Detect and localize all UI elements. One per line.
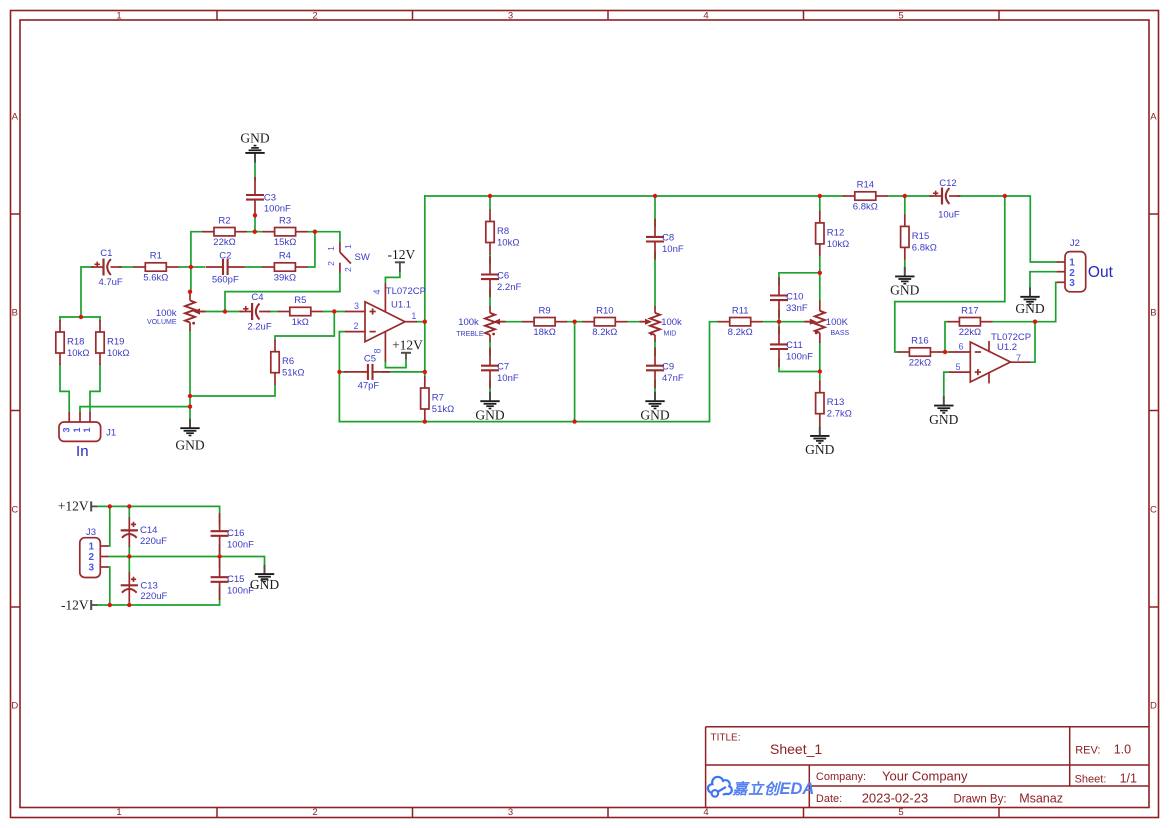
wire wiper to C4	[197, 311, 242, 313]
junction	[1003, 194, 1007, 198]
wire bus to R8	[489, 196, 491, 210]
power -12V	[61, 597, 97, 612]
wire C14 bottom	[128, 547, 130, 557]
resistor R12	[816, 211, 850, 256]
svg-text:GND: GND	[929, 412, 958, 427]
wire R19 top stub	[99, 317, 101, 320]
wire R4 to C2	[246, 266, 263, 268]
capacitor C7	[481, 348, 499, 389]
svg-text:R11: R11	[732, 305, 749, 316]
wire C10 to R12 node	[779, 273, 820, 285]
svg-text:C14: C14	[140, 525, 157, 536]
junction	[108, 603, 112, 607]
capacitor C3	[246, 177, 264, 218]
capacitor C4	[239, 303, 270, 320]
junction	[253, 230, 257, 234]
svg-text:C1: C1	[100, 248, 112, 259]
svg-text:C4: C4	[251, 292, 263, 303]
junction	[217, 554, 221, 558]
svg-text:GND: GND	[1015, 301, 1044, 316]
svg-text:15kΩ: 15kΩ	[274, 237, 296, 248]
svg-text:Msanaz: Msanaz	[1019, 791, 1063, 805]
svg-text:1: 1	[88, 542, 94, 553]
svg-text:D: D	[1150, 701, 1157, 712]
junction	[188, 290, 192, 294]
svg-text:1: 1	[411, 311, 416, 321]
capacitor C13	[121, 572, 138, 602]
wire C4 to R5	[268, 311, 278, 313]
svg-text:2.7kΩ: 2.7kΩ	[827, 409, 852, 420]
wire bass bottom	[819, 343, 821, 372]
resistor R19	[96, 320, 130, 365]
svg-text:-12V: -12V	[61, 597, 89, 612]
junction	[1033, 320, 1037, 324]
svg-text:C2: C2	[219, 250, 231, 261]
svg-text:SW: SW	[355, 252, 370, 263]
svg-text:1: 1	[343, 244, 353, 249]
svg-text:8: 8	[373, 348, 383, 353]
svg-text:2: 2	[88, 552, 94, 563]
svg-text:47pF: 47pF	[358, 380, 380, 391]
svg-text:Sheet:: Sheet:	[1075, 773, 1107, 785]
wire R17 to out node	[992, 321, 1035, 323]
junction	[423, 320, 427, 324]
resistor R2	[202, 215, 247, 248]
svg-text:51kΩ: 51kΩ	[432, 404, 454, 415]
resistor R7	[421, 376, 455, 421]
resistor R15	[901, 214, 937, 259]
svg-text:Out: Out	[1088, 264, 1114, 281]
wire C15 top	[219, 557, 221, 568]
svg-text:2.2nF: 2.2nF	[497, 282, 521, 293]
wire bus R14 to C12	[888, 195, 932, 197]
resistor R8	[486, 210, 520, 255]
svg-text:3: 3	[508, 807, 513, 818]
svg-text:C3: C3	[264, 193, 276, 204]
svg-text:4: 4	[703, 807, 708, 818]
power +12V	[58, 499, 97, 514]
wire R7 bottom	[424, 420, 426, 423]
wire J1 pin1 to gnd bus	[80, 407, 190, 412]
wire bass node to C10	[778, 311, 780, 322]
junction	[903, 194, 907, 198]
ground	[250, 565, 279, 592]
junction	[332, 309, 336, 313]
svg-text:5.6kΩ: 5.6kΩ	[143, 272, 168, 283]
junction	[253, 213, 257, 217]
capacitor C14	[121, 517, 138, 547]
resistor R1	[133, 251, 178, 284]
wire R13 to gnd	[819, 425, 821, 428]
wire R1 to node	[178, 266, 191, 268]
wire bottom bus	[339, 322, 717, 422]
svg-text:C16: C16	[227, 528, 244, 539]
wire R18 to R19 top	[60, 316, 100, 318]
capacitor C6	[481, 256, 499, 297]
svg-text:10nF: 10nF	[662, 244, 684, 255]
svg-text:C15: C15	[227, 574, 244, 585]
wire node to R17	[945, 322, 947, 352]
resistor R10	[582, 305, 627, 338]
wire C12 to J2 pin1	[958, 196, 1057, 262]
wire R11 to bass node	[763, 321, 813, 323]
svg-text:3: 3	[61, 427, 71, 432]
svg-text:R14: R14	[857, 180, 874, 191]
wire bus to R12	[819, 196, 821, 211]
svg-text:220uF: 220uF	[140, 536, 167, 547]
ground	[1015, 287, 1044, 315]
junction	[189, 265, 193, 269]
svg-text:100k: 100k	[458, 317, 479, 328]
svg-text:BASS: BASS	[831, 330, 850, 337]
junction	[127, 504, 131, 508]
junction	[572, 419, 576, 423]
svg-text:7: 7	[1016, 353, 1021, 363]
ground	[929, 396, 958, 427]
pot pin dot	[192, 322, 195, 325]
svg-text:2023-02-23: 2023-02-23	[862, 791, 929, 806]
resistor R11	[718, 305, 763, 338]
svg-text:10kΩ: 10kΩ	[827, 239, 849, 250]
capacitor C2	[206, 259, 245, 275]
svg-text:22kΩ: 22kΩ	[213, 237, 235, 248]
ground	[640, 392, 669, 423]
svg-text:6.8kΩ: 6.8kΩ	[912, 242, 937, 253]
svg-text:TITLE:: TITLE:	[711, 732, 741, 743]
junction	[79, 315, 83, 319]
ground	[175, 419, 204, 453]
svg-text:C11: C11	[786, 340, 803, 351]
wire GND1 to C3	[254, 162, 256, 181]
svg-text:R12: R12	[827, 227, 844, 238]
wire volume gnd column	[189, 331, 191, 428]
resistor R6	[271, 340, 305, 385]
svg-text:100k: 100k	[156, 308, 177, 319]
wire bass top	[819, 273, 821, 301]
ground	[805, 427, 834, 458]
wire bass node to C11	[778, 322, 780, 334]
wire top bus	[425, 195, 843, 197]
resistor R9	[522, 305, 567, 338]
svg-text:R4: R4	[279, 251, 291, 262]
svg-text:嘉立创: 嘉立创	[732, 780, 783, 798]
svg-text:2: 2	[353, 321, 358, 331]
svg-text:2: 2	[326, 261, 336, 266]
svg-text:4.7uF: 4.7uF	[98, 277, 122, 288]
wire pin2 feedback column	[339, 332, 345, 422]
junction	[313, 230, 317, 234]
svg-text:TL072CP: TL072CP	[386, 286, 426, 297]
capacitor C1	[91, 259, 122, 276]
connector J3	[80, 538, 109, 578]
svg-text:3: 3	[88, 563, 94, 574]
wire R5 to pin3 node	[323, 311, 345, 313]
svg-text:8.2kΩ: 8.2kΩ	[728, 327, 753, 338]
svg-text:3: 3	[508, 11, 513, 22]
wire bus to C8	[654, 196, 656, 226]
wire node to R13	[819, 372, 821, 381]
svg-text:C: C	[1150, 505, 1157, 516]
svg-text:22kΩ: 22kΩ	[909, 357, 931, 368]
pot pin dot	[815, 332, 818, 335]
wire R10 to mid wiper	[627, 321, 646, 323]
wire J2 node to R16	[895, 196, 1005, 352]
svg-text:1/1: 1/1	[1120, 771, 1137, 785]
svg-text:R5: R5	[294, 295, 306, 306]
wiper arrow	[193, 308, 206, 314]
svg-text:C9: C9	[662, 362, 674, 373]
svg-text:2: 2	[312, 11, 317, 22]
svg-text:6.8kΩ: 6.8kΩ	[853, 201, 878, 212]
connector J1	[59, 412, 101, 441]
svg-text:R8: R8	[497, 226, 509, 237]
svg-text:GND: GND	[240, 131, 269, 146]
svg-text:2: 2	[343, 267, 353, 272]
svg-text:2: 2	[312, 807, 317, 818]
svg-text:GND: GND	[175, 438, 204, 453]
svg-text:R6: R6	[282, 356, 294, 367]
svg-text:3: 3	[354, 301, 359, 311]
svg-text:C5: C5	[364, 354, 376, 365]
resistor R13	[816, 381, 852, 426]
EDA logo	[708, 777, 814, 798]
svg-text:R17: R17	[961, 305, 978, 316]
wire left rail	[424, 196, 426, 376]
svg-text:100k: 100k	[661, 317, 682, 328]
wire out node to J2 pin3	[1035, 282, 1057, 321]
wire +12V to pin8	[385, 359, 406, 368]
junction	[653, 194, 657, 198]
resistor R3	[263, 215, 308, 248]
wire R3 to SW node	[308, 231, 315, 233]
svg-text:Date:: Date:	[816, 793, 842, 805]
svg-text:22kΩ: 22kΩ	[959, 327, 981, 338]
svg-text:U1.1: U1.1	[391, 300, 411, 311]
svg-text:R18: R18	[67, 337, 84, 348]
wire -12V rail	[97, 588, 219, 605]
power +12V	[392, 337, 423, 359]
resistor R18	[56, 320, 90, 365]
junction	[572, 320, 576, 324]
svg-text:10kΩ: 10kΩ	[497, 238, 519, 249]
pot pin dot	[650, 333, 653, 336]
wire +12V rail	[97, 506, 219, 524]
junction	[127, 554, 131, 558]
svg-text:100nF: 100nF	[264, 204, 291, 215]
wire J2 pin2 to gnd	[1030, 272, 1057, 288]
junction	[818, 271, 822, 275]
wiper arrow	[804, 319, 817, 325]
svg-text:TL072CP: TL072CP	[991, 332, 1031, 343]
svg-text:R10: R10	[596, 305, 613, 316]
svg-text:47nF: 47nF	[662, 373, 684, 384]
svg-text:5: 5	[898, 11, 903, 22]
svg-text:4: 4	[703, 11, 708, 22]
wire pin1 out	[417, 321, 425, 323]
ground	[475, 392, 504, 423]
svg-text:Company:: Company:	[816, 771, 866, 783]
wire R16 to pin6	[942, 351, 949, 353]
svg-text:Drawn By:: Drawn By:	[954, 793, 1007, 805]
svg-text:REV:: REV:	[1075, 744, 1100, 756]
svg-text:1.0: 1.0	[1114, 742, 1131, 756]
svg-text:2.2uF: 2.2uF	[247, 322, 271, 333]
svg-text:1kΩ: 1kΩ	[292, 317, 309, 328]
svg-text:R16: R16	[911, 336, 928, 347]
wire C13 bottom	[128, 602, 130, 605]
wire R12 to bass	[819, 256, 821, 273]
junction	[188, 404, 192, 408]
capacitor C15	[211, 559, 229, 600]
wire R18 to J1 pin3	[60, 365, 69, 412]
wire C11 to R13 node	[779, 360, 820, 372]
wire C9 to gnd	[654, 381, 656, 392]
svg-text:C10: C10	[786, 291, 803, 302]
svg-text:39kΩ: 39kΩ	[274, 272, 296, 283]
wire treble wiper to R9	[498, 321, 523, 323]
wire R15 to gnd	[904, 259, 906, 267]
svg-text:220uF: 220uF	[140, 591, 167, 602]
svg-text:R9: R9	[539, 305, 551, 316]
svg-text:C6: C6	[497, 270, 509, 281]
svg-text:18kΩ: 18kΩ	[533, 327, 555, 338]
capacitor C8	[646, 219, 664, 260]
wire node to R6 top	[275, 312, 334, 340]
svg-text:C7: C7	[497, 362, 509, 373]
wire C8 to mid	[654, 252, 656, 306]
capacitor C9	[646, 348, 664, 389]
wire gnd bus to R6	[190, 385, 275, 396]
resistor R5	[278, 295, 323, 328]
svg-text:J3: J3	[86, 527, 96, 538]
svg-text:51kΩ: 51kΩ	[282, 368, 304, 379]
wire node to SW pin1	[315, 232, 340, 243]
svg-text:R15: R15	[912, 231, 929, 242]
junction	[108, 504, 112, 508]
wire C7 to gnd	[489, 381, 491, 392]
wire C13 top	[128, 557, 130, 573]
junction	[818, 369, 822, 373]
title block	[706, 727, 1149, 808]
wire R2 left to R1 node	[191, 232, 202, 292]
switch SW	[340, 243, 351, 273]
capacitor C16	[211, 513, 229, 554]
capacitor C12	[929, 188, 960, 205]
ground	[890, 267, 919, 298]
svg-text:EDA: EDA	[780, 780, 815, 798]
wire R19 to J1 pin2	[90, 365, 100, 412]
svg-text:1: 1	[326, 246, 336, 251]
svg-text:+12V: +12V	[392, 337, 423, 352]
wire C6 to treble	[489, 290, 491, 307]
svg-text:10kΩ: 10kΩ	[107, 348, 129, 359]
svg-text:J2: J2	[1070, 238, 1080, 249]
wiper arrow	[640, 319, 653, 325]
wire treble to C7	[489, 342, 491, 356]
resistor R16	[897, 336, 942, 369]
svg-text:A: A	[1150, 112, 1157, 123]
svg-text:A: A	[12, 112, 19, 123]
wire J3 pin3 down	[108, 567, 110, 605]
svg-text:10uF: 10uF	[938, 209, 960, 220]
svg-text:R19: R19	[107, 337, 124, 348]
junction	[223, 309, 227, 313]
ground	[240, 131, 269, 163]
junction	[188, 394, 192, 398]
potentiometer BASS	[815, 311, 825, 333]
svg-text:U1.2: U1.2	[997, 342, 1017, 353]
wire pin5 to gnd	[944, 372, 949, 396]
svg-text:8.2kΩ: 8.2kΩ	[592, 327, 617, 338]
svg-text:5: 5	[955, 362, 960, 372]
wire mid to C9	[654, 342, 656, 356]
wire C16 bottom	[219, 545, 221, 557]
svg-text:GND: GND	[805, 442, 834, 457]
svg-text:R13: R13	[827, 397, 844, 408]
svg-text:J1: J1	[106, 428, 116, 439]
wire R9 to R10	[567, 321, 582, 323]
wire treble column down	[574, 322, 576, 422]
svg-text:1: 1	[72, 427, 82, 432]
junction	[818, 194, 822, 198]
svg-text:C: C	[11, 505, 18, 516]
wire C5 right	[383, 371, 425, 373]
wire C2 to R1 node	[191, 266, 205, 268]
svg-text:C8: C8	[662, 233, 674, 244]
svg-text:D: D	[11, 701, 18, 712]
resistor R17	[947, 305, 992, 338]
svg-text:In: In	[76, 443, 89, 460]
pot pin dot	[492, 333, 495, 336]
svg-text:10kΩ: 10kΩ	[67, 348, 89, 359]
wire -12V to pin4	[385, 272, 400, 284]
svg-text:R1: R1	[150, 251, 162, 262]
connector J2	[1057, 252, 1086, 292]
svg-text:GND: GND	[250, 577, 279, 592]
wire C1 to R18/R19 node	[81, 267, 93, 317]
op-amp U1.2	[949, 341, 1030, 384]
wire R2 to R3	[247, 231, 263, 233]
wire J3 pin2 gnd row	[108, 557, 264, 565]
svg-text:100nF: 100nF	[227, 539, 254, 550]
svg-text:VOLUME: VOLUME	[147, 319, 177, 326]
svg-text:5: 5	[898, 807, 903, 818]
wire node to R4	[307, 232, 315, 267]
svg-text:B: B	[12, 308, 18, 319]
junction	[423, 419, 427, 423]
resistor R4	[262, 251, 307, 284]
wire J3 pin1 up	[108, 506, 110, 546]
svg-text:-12V: -12V	[388, 247, 416, 262]
svg-text:1: 1	[116, 807, 121, 818]
svg-text:B: B	[1150, 308, 1156, 319]
svg-text:Sheet_1: Sheet_1	[770, 741, 822, 757]
capacitor C10	[770, 277, 788, 318]
capacitor C11	[770, 326, 788, 367]
wiper arrow	[493, 319, 506, 325]
svg-text:10nF: 10nF	[497, 373, 519, 384]
svg-text:MID: MID	[664, 330, 677, 337]
op-amp U1.1	[345, 284, 417, 362]
wire bus to R15	[904, 196, 906, 214]
wire C14 top	[128, 506, 130, 517]
svg-text:100K: 100K	[826, 317, 849, 328]
svg-text:1: 1	[116, 11, 121, 22]
svg-text:560pF: 560pF	[212, 274, 239, 285]
junction	[777, 320, 781, 324]
wire C3 to R2/R3 node	[254, 215, 256, 232]
wire SW pin2 to wiper node	[225, 273, 340, 312]
